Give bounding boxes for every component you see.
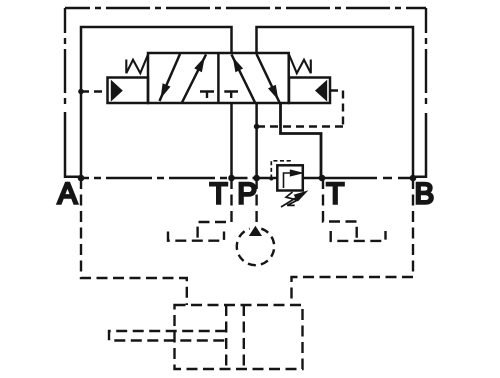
wire: T stub valve to ports line [230,103,233,178]
enclosure boundary left upper (dash-dot) [64,8,66,104]
valve V1 right pilot actuator box [289,78,330,104]
node B junction dot [410,175,417,182]
wire: P stub valve to ports line [255,103,258,178]
junction: left pilot tap on A riser [78,89,84,95]
svg-text:B: B [414,178,434,211]
valve V1 left return spring [126,55,148,74]
wire: T2 drain to tank (dashed) [323,178,357,240]
svg-text:A: A [58,178,78,211]
cylinder CYL1 piston line 1 (dashed) [225,305,227,369]
node P junction dot [253,175,260,182]
relief valve RV1 pilot sense line (dashed) [271,161,290,179]
valve V1 left arrow P-A [182,55,206,103]
valve V1 left pilot triangle [111,80,123,102]
svg-text:T: T [326,178,344,211]
valve V1 body [148,53,289,103]
enclosure boundary right upper (dash-dot) [425,8,427,106]
pump PU1 flow triangle [249,226,262,236]
svg-text:T: T [210,178,228,211]
cylinder CYL1 rod (dashed) [109,331,226,341]
wire: valve T2 elbow to ports line [281,103,322,178]
wire: right boundary lower solid segment to node B [414,113,426,177]
wire: left boundary lower solid segment to node A [65,112,79,177]
relief valve RV1 adjustment arrow [281,194,303,208]
svg-text:P: P [237,178,257,211]
valve V1 position divider [217,53,220,103]
valve V1 left blocked port T [200,92,214,99]
valve V1 right pilot triangle [315,80,327,102]
wire: ports line A to T (dash-dot) [81,177,232,179]
relief valve RV1 body [277,165,303,190]
node T junction dot [228,175,235,182]
valve V1 left arrow B-T [160,54,181,101]
wire: B to cylinder right port (dashed) [292,178,414,305]
wire: T drain to tank (dashed) [198,178,232,240]
wire: ports line T2 to B (dash-dot) [322,177,413,179]
enclosure boundary top (dash-dot) [65,7,426,9]
pilot line to left actuator (dashed) [81,90,108,92]
relief valve RV1 flow arrow [284,173,293,188]
cylinder CYL1 piston line 2 (dashed) [243,305,245,369]
valve V1 right arrow P-A [232,55,256,103]
junction: right pilot tap on P riser [254,124,260,130]
relief valve RV1 spring [286,192,298,205]
wire: B rail from riser to valve port [257,27,414,178]
junction: relief pilot tap [269,177,273,181]
pilot line to right actuator (dashed) [257,91,343,127]
wire: relief valve outlet to T2 [303,177,322,180]
cylinder CYL1 barrel (dashed) [175,305,303,369]
tank symbol left [168,232,224,241]
wire: A rail from riser to valve port [81,27,232,178]
valve V1 right return spring [289,55,311,74]
wire: P supply from pump (dashed) [255,178,257,226]
valve V1 right blocked port T [224,92,238,99]
node T2 junction dot [319,175,326,182]
tank symbol right [331,231,386,241]
wire: ports line T to P (dash-dot) [232,177,257,179]
node A junction dot [78,175,85,182]
pump PU1 circle (dashed) [237,229,274,265]
valve V1 right arrow B-T [257,54,280,103]
valve V1 left pilot actuator box [108,78,149,104]
wire: A to cylinder left port (dashed) [81,178,187,305]
wire: P to relief valve inlet [257,177,278,180]
